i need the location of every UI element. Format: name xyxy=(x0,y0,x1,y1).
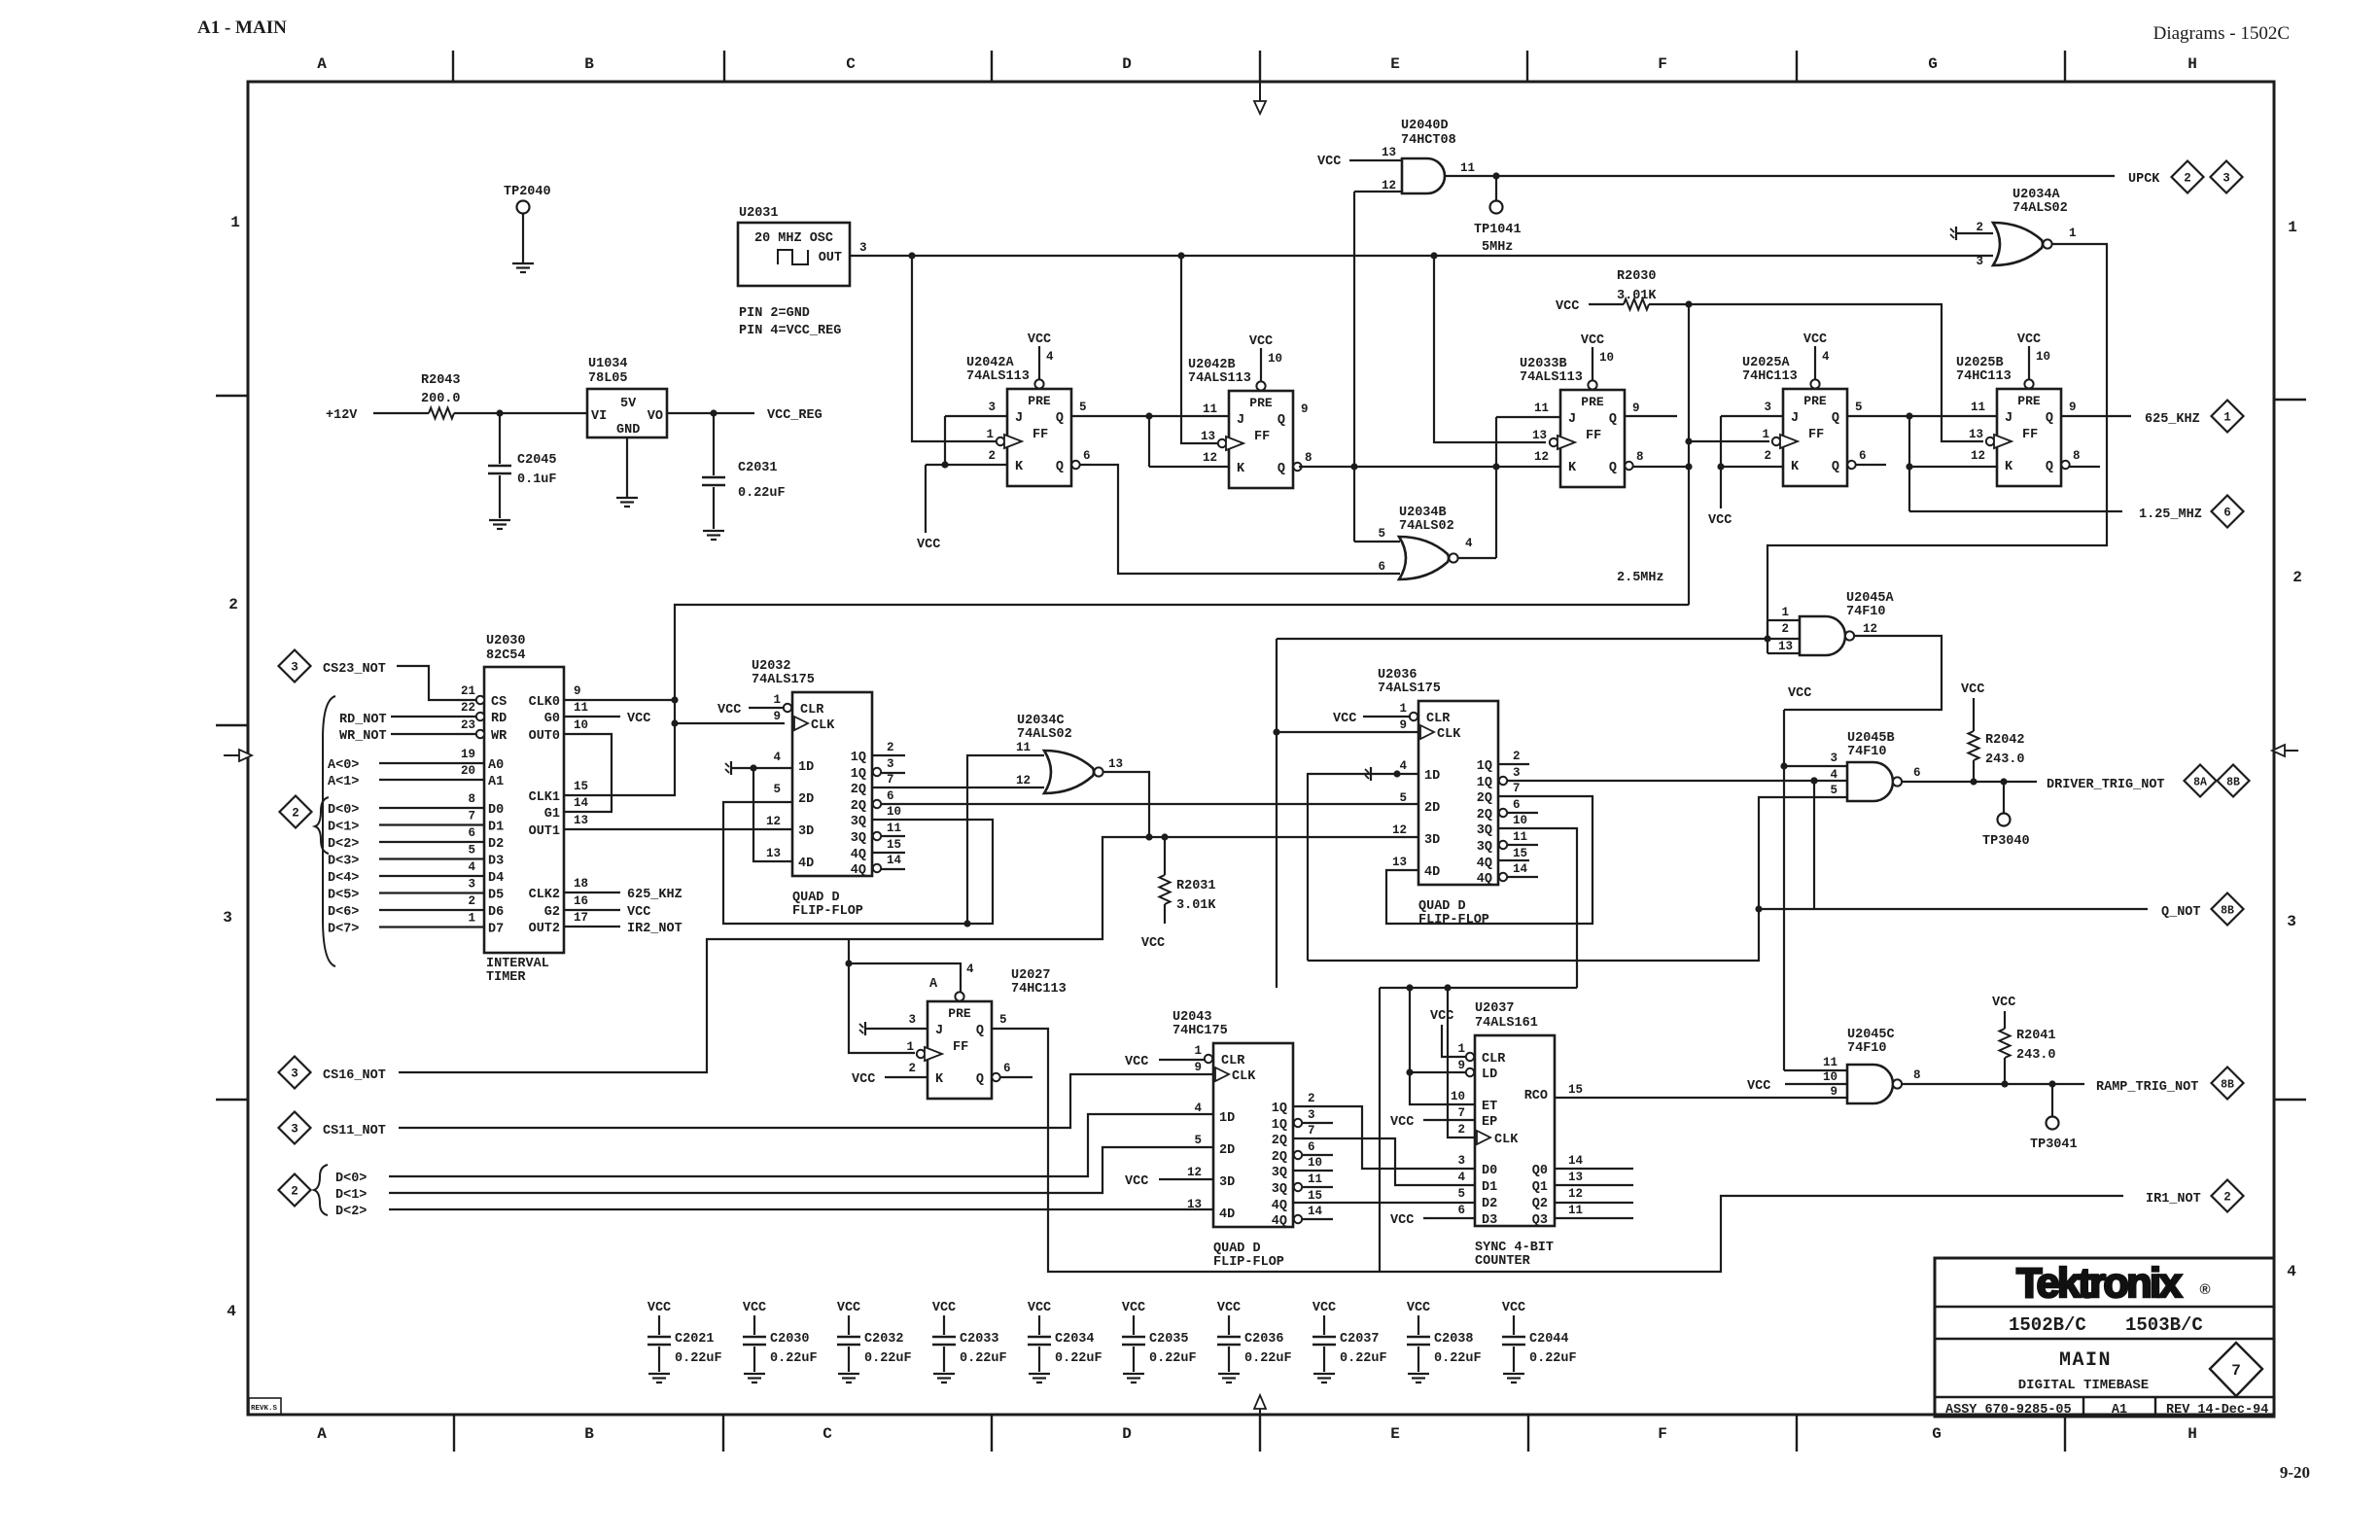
svg-text:3: 3 xyxy=(1764,401,1771,414)
svg-text:12: 12 xyxy=(1016,774,1031,787)
svg-text:74ALS175: 74ALS175 xyxy=(752,673,815,687)
connector diamond 3 (CS16_NOT) xyxy=(279,1057,311,1089)
wire D<5> to U2030 D5 xyxy=(379,892,484,893)
Tektronix logo xyxy=(2016,1260,2210,1307)
svg-text:11: 11 xyxy=(1016,741,1031,754)
wire U2037 RCO to U2045C pin 9 xyxy=(1555,1097,1847,1099)
svg-text:D5: D5 xyxy=(488,889,504,903)
connector diamond 1 (625_KHZ) xyxy=(2212,401,2244,433)
svg-text:D3: D3 xyxy=(1482,1213,1497,1228)
svg-text:8: 8 xyxy=(468,792,475,806)
svg-text:625_KHZ: 625_KHZ xyxy=(627,888,682,902)
svg-text:2: 2 xyxy=(1781,622,1789,636)
svg-text:4Q: 4Q xyxy=(851,848,866,862)
wire R2030 net to U2025B clock xyxy=(1649,300,1983,441)
capacitor C2033 (0.22uF) xyxy=(932,1301,1007,1382)
svg-text:1D: 1D xyxy=(798,760,814,775)
svg-text:1502B/C: 1502B/C xyxy=(2009,1314,2086,1336)
svg-text:0.22uF: 0.22uF xyxy=(1434,1351,1482,1366)
svg-text:J: J xyxy=(2005,411,2012,426)
svg-text:G2: G2 xyxy=(544,905,560,920)
capacitor C2045 (0.1uF) xyxy=(488,413,557,518)
svg-text:D<4>: D<4> xyxy=(328,871,359,886)
svg-text:3Q: 3Q xyxy=(851,831,866,846)
wire U2030 OUT0 to G1 loop xyxy=(564,734,612,812)
svg-text:D: D xyxy=(1122,55,1132,73)
svg-text:4D: 4D xyxy=(1424,865,1440,880)
svg-text:FF: FF xyxy=(1808,428,1824,442)
NAND gate U2045B (74F10) xyxy=(1847,731,1902,801)
svg-text:U2031: U2031 xyxy=(739,206,779,221)
wire +12V to R2043 xyxy=(373,412,429,414)
svg-text:74ALS02: 74ALS02 xyxy=(2012,201,2068,216)
svg-text:3: 3 xyxy=(1830,752,1837,765)
svg-text:5: 5 xyxy=(1194,1134,1202,1147)
svg-text:15: 15 xyxy=(887,838,901,852)
svg-text:D3: D3 xyxy=(488,855,504,869)
svg-text:5: 5 xyxy=(1378,527,1385,541)
wire U2030 G2 to VCC xyxy=(564,905,650,920)
capacitor C2030 (0.22uF) xyxy=(743,1301,818,1382)
svg-text:5: 5 xyxy=(1830,784,1837,797)
wire U2036 3Q to U2037 LD/ET net xyxy=(1498,828,1577,988)
svg-text:CS11_NOT: CS11_NOT xyxy=(323,1124,386,1138)
svg-text:D<2>: D<2> xyxy=(335,1205,367,1219)
svg-text:VCC: VCC xyxy=(1249,334,1273,349)
svg-text:U2042B: U2042B xyxy=(1188,358,1236,372)
svg-text:2: 2 xyxy=(1308,1092,1315,1105)
svg-text:VCC: VCC xyxy=(1803,332,1827,347)
wire U2030 G0 to VCC xyxy=(564,712,650,726)
svg-text:C2032: C2032 xyxy=(864,1332,904,1347)
connector diamond 3 (CS11_NOT) xyxy=(279,1112,311,1144)
test point TP3041 xyxy=(2030,1084,2078,1152)
svg-text:C2044: C2044 xyxy=(1529,1332,1569,1347)
svg-text:VCC: VCC xyxy=(932,1301,956,1315)
svg-text:0.1uF: 0.1uF xyxy=(517,472,557,487)
svg-text:1D: 1D xyxy=(1424,769,1440,784)
svg-text:11: 11 xyxy=(574,701,588,715)
svg-text:9: 9 xyxy=(1830,1085,1837,1099)
wire U2043 3Qbar stub xyxy=(1302,1186,1333,1188)
svg-text:0.22uF: 0.22uF xyxy=(1055,1351,1102,1366)
wire 20MHz oscillator output net xyxy=(849,252,1993,259)
svg-text:MAIN: MAIN xyxy=(2059,1349,2112,1372)
svg-text:VCC: VCC xyxy=(1502,1301,1525,1315)
svg-text:VCC: VCC xyxy=(1317,155,1341,169)
svg-text:10: 10 xyxy=(2036,350,2050,364)
svg-text:VCC: VCC xyxy=(1581,333,1604,348)
svg-text:TP2040: TP2040 xyxy=(504,185,551,199)
REVK.S revision box xyxy=(249,1398,281,1415)
svg-text:20: 20 xyxy=(461,764,475,778)
svg-text:3Q: 3Q xyxy=(1477,823,1492,838)
svg-text:13: 13 xyxy=(1201,430,1215,443)
VCC xyxy=(2017,332,2041,379)
wire U2032 2Qbar to U2036 2D xyxy=(881,803,1418,805)
connector diamond 3 (UPCK) xyxy=(2211,161,2243,193)
svg-text:8B: 8B xyxy=(2221,1079,2234,1092)
svg-text:3.01K: 3.01K xyxy=(1617,289,1657,303)
svg-text:Q0: Q0 xyxy=(1532,1164,1548,1178)
svg-text:PRE: PRE xyxy=(1249,396,1273,410)
svg-text:TIMER: TIMER xyxy=(486,970,526,985)
svg-text:EP: EP xyxy=(1482,1115,1497,1130)
svg-text:A: A xyxy=(317,55,327,73)
ground for C2045 xyxy=(489,520,510,529)
svg-text:U2040D: U2040D xyxy=(1401,119,1449,133)
svg-text:OUT1: OUT1 xyxy=(529,824,560,839)
wire 1.25_MHZ output xyxy=(1909,510,2122,512)
svg-text:4: 4 xyxy=(1830,768,1837,782)
wire U1034 GND to ground xyxy=(626,437,628,497)
wire U2036 1Q stub xyxy=(1498,763,1529,765)
svg-text:4Q: 4Q xyxy=(1477,857,1492,871)
wire U2033B Qbar to R2030 net xyxy=(1633,466,1689,468)
wire U2043 4Qbar stub xyxy=(1302,1218,1333,1220)
svg-text:VCC: VCC xyxy=(1125,1174,1148,1189)
capacitor C2044 (0.22uF) xyxy=(1502,1301,1577,1382)
NOR gate U2034A (74ALS02) xyxy=(1993,188,2068,265)
svg-text:2: 2 xyxy=(1457,1123,1465,1137)
svg-text:5: 5 xyxy=(1399,791,1407,805)
wire D<3> to U2030 D3 xyxy=(379,857,484,859)
svg-text:J: J xyxy=(1237,413,1244,428)
svg-text:DIGITAL TIMEBASE: DIGITAL TIMEBASE xyxy=(2018,1378,2149,1393)
wire U2036 1Qbar to U2045B pin 4 xyxy=(1507,777,1847,784)
svg-text:K: K xyxy=(2005,460,2013,474)
connector diamond 2 (IR1_NOT) xyxy=(2212,1180,2244,1212)
row ticks right xyxy=(2275,400,2306,1100)
wire D<0> to U2030 D0 xyxy=(379,807,484,809)
svg-text:11: 11 xyxy=(1534,402,1549,415)
svg-text:D4: D4 xyxy=(488,871,504,886)
wire U2037 Q3 stub xyxy=(1555,1217,1633,1219)
wire WR_NOT to U2030 WR xyxy=(391,733,476,735)
svg-text:U2043: U2043 xyxy=(1172,1010,1212,1025)
svg-text:1503B/C: 1503B/C xyxy=(2125,1314,2203,1336)
svg-text:3: 3 xyxy=(988,401,996,414)
svg-text:5: 5 xyxy=(1079,401,1087,414)
brace for U2030 input group xyxy=(323,696,335,966)
wire VCC to U2040D pin 13 xyxy=(1349,159,1402,161)
connector diamond 8B (RAMP_TRIG_NOT) xyxy=(2212,1067,2244,1100)
tied-low symbol on U2032 1D xyxy=(725,761,792,775)
svg-text:OUT: OUT xyxy=(819,251,842,265)
svg-text:OUT2: OUT2 xyxy=(529,922,560,936)
svg-text:200.0: 200.0 xyxy=(421,392,461,406)
svg-text:R2042: R2042 xyxy=(1985,733,2025,748)
wire VCC to U2037 D3 xyxy=(1390,1213,1475,1228)
svg-text:14: 14 xyxy=(574,796,589,810)
svg-text:8B: 8B xyxy=(2226,777,2240,789)
svg-text:Q_NOT: Q_NOT xyxy=(2161,905,2201,920)
svg-text:2: 2 xyxy=(2292,569,2302,586)
svg-text:3: 3 xyxy=(2287,913,2296,930)
wire VCC to U2043 CLR xyxy=(1125,1055,1206,1069)
svg-text:1Q: 1Q xyxy=(851,767,866,782)
resistor R2043 (200.0) xyxy=(421,373,461,419)
svg-text:U2025A: U2025A xyxy=(1742,356,1791,370)
svg-text:CLR: CLR xyxy=(1426,712,1451,726)
svg-text:U2027: U2027 xyxy=(1011,968,1051,983)
resistor R2031 (3.01K) pull to VCC xyxy=(1141,837,1217,951)
svg-text:Q: Q xyxy=(2046,460,2053,474)
svg-text:VCC: VCC xyxy=(627,905,650,920)
tied-low symbol on U2027 J xyxy=(859,1022,927,1035)
svg-text:0.22uF: 0.22uF xyxy=(1149,1351,1197,1366)
wire osc to U2042A clock xyxy=(912,256,1000,441)
svg-text:2D: 2D xyxy=(798,792,814,807)
svg-text:4Q: 4Q xyxy=(851,863,866,878)
svg-text:E: E xyxy=(1390,55,1400,73)
svg-text:PRE: PRE xyxy=(1028,394,1051,408)
svg-text:A0: A0 xyxy=(488,758,504,773)
svg-text:0.22uF: 0.22uF xyxy=(770,1351,818,1366)
svg-text:4: 4 xyxy=(773,751,781,764)
svg-text:0.22uF: 0.22uF xyxy=(960,1351,1007,1366)
svg-text:14: 14 xyxy=(1308,1205,1323,1218)
svg-text:4: 4 xyxy=(1046,350,1054,364)
capacitor C2038 (0.22uF) xyxy=(1407,1301,1482,1382)
svg-text:1: 1 xyxy=(773,693,781,707)
wire VCC to U2043 3D xyxy=(1125,1174,1213,1189)
NOR gate U2034C (74ALS02) xyxy=(1017,714,1103,793)
svg-text:CLK: CLK xyxy=(1232,1069,1256,1084)
wire U2036 2Qbar stub xyxy=(1507,812,1538,814)
svg-text:C2037: C2037 xyxy=(1340,1332,1380,1347)
svg-text:3: 3 xyxy=(859,241,867,255)
wire D<1> to U2030 D1 xyxy=(379,823,484,825)
svg-text:4: 4 xyxy=(966,962,974,976)
svg-text:Q: Q xyxy=(2046,411,2053,426)
wire VCC to U2037 CLR xyxy=(1430,1009,1465,1057)
svg-text:12: 12 xyxy=(1187,1166,1202,1179)
wire U2032 4Q stub xyxy=(872,852,905,854)
svg-text:COUNTER: COUNTER xyxy=(1475,1254,1531,1269)
svg-text:19: 19 xyxy=(461,748,475,761)
svg-text:11: 11 xyxy=(887,822,901,835)
column ticks bottom xyxy=(454,1415,2065,1452)
row numbers right xyxy=(2287,219,2302,1280)
alignment arrow left border xyxy=(224,750,252,761)
svg-text:B: B xyxy=(584,55,594,73)
svg-text:6: 6 xyxy=(1513,798,1521,812)
svg-text:PRE: PRE xyxy=(1581,395,1604,409)
capacitor C2032 (0.22uF) xyxy=(837,1301,912,1382)
svg-text:11: 11 xyxy=(1203,402,1217,416)
svg-text:7: 7 xyxy=(887,773,894,787)
svg-text:12: 12 xyxy=(1534,450,1549,464)
svg-text:6: 6 xyxy=(1308,1140,1315,1154)
svg-text:VCC: VCC xyxy=(1390,1115,1414,1130)
svg-text:SYNC 4-BIT: SYNC 4-BIT xyxy=(1475,1241,1554,1255)
svg-text:1: 1 xyxy=(468,912,475,926)
NOR gate U2034B (74ALS02) xyxy=(1399,506,1458,579)
wire U2030 CLK0 to clock loop xyxy=(564,699,675,701)
wire U2045B pin 5 net xyxy=(1308,797,1847,961)
svg-text:4: 4 xyxy=(227,1303,236,1320)
svg-text:14: 14 xyxy=(1568,1154,1584,1168)
svg-text:FF: FF xyxy=(1254,430,1270,444)
wire osc to U2042B clock xyxy=(1181,256,1218,443)
svg-text:13: 13 xyxy=(1532,429,1547,442)
svg-text:74ALS02: 74ALS02 xyxy=(1017,727,1072,742)
svg-text:14: 14 xyxy=(1513,862,1528,876)
svg-text:2Q: 2Q xyxy=(1477,791,1492,806)
node A to U2027 PRE xyxy=(845,960,961,992)
quad D flip-flop U2032 (74ALS175) xyxy=(752,659,902,919)
svg-text:4: 4 xyxy=(468,860,475,874)
oscillator U2031 (20 MHZ OSC) xyxy=(738,206,867,286)
wire U2042A Qbar to NOR U2034B pin 6 xyxy=(1079,465,1400,574)
wire D<4> to U2030 D4 xyxy=(379,875,484,877)
svg-text:5: 5 xyxy=(468,844,475,857)
svg-text:PIN 4=VCC_REG: PIN 4=VCC_REG xyxy=(739,324,841,338)
svg-text:74ALS113: 74ALS113 xyxy=(1520,370,1583,385)
wire U2032 2D loop from 3Q xyxy=(723,802,993,924)
svg-text:VCC: VCC xyxy=(2017,332,2041,347)
flip-flop U2042A (74ALS113) xyxy=(966,350,1091,486)
svg-text:10: 10 xyxy=(1599,351,1614,365)
svg-text:13: 13 xyxy=(574,814,588,827)
wire U2027 Q to IR1_NOT xyxy=(992,1029,2123,1272)
svg-text:5: 5 xyxy=(1457,1187,1465,1201)
svg-text:E: E xyxy=(1390,1425,1400,1443)
wire U2025B Qbar stub xyxy=(2069,466,2100,468)
svg-text:Q: Q xyxy=(976,1024,984,1038)
svg-text:3: 3 xyxy=(2222,172,2230,186)
wire VCC node down to U2045B pin 3 and U2045C pin 11 xyxy=(1780,710,1847,1070)
wire U2030 OUT2 label IR2_NOT xyxy=(564,922,682,936)
svg-text:12: 12 xyxy=(1392,823,1407,837)
svg-text:D<1>: D<1> xyxy=(328,821,359,835)
svg-text:12: 12 xyxy=(766,815,781,828)
wire VCC to U2045C pin 10 xyxy=(1747,1079,1847,1094)
svg-text:0.22uF: 0.22uF xyxy=(1244,1351,1292,1366)
svg-text:Q: Q xyxy=(1832,411,1839,426)
svg-text:R2041: R2041 xyxy=(2016,1029,2056,1043)
svg-text:4: 4 xyxy=(1194,1102,1202,1115)
svg-text:FLIP-FLOP: FLIP-FLOP xyxy=(1213,1255,1284,1270)
wire U2043 2Q to U2037 D1 xyxy=(1293,1138,1475,1185)
svg-text:3D: 3D xyxy=(1219,1175,1235,1190)
svg-text:D<0>: D<0> xyxy=(335,1172,367,1186)
svg-text:PRE: PRE xyxy=(1803,394,1827,408)
wire U2032 1D tie to 4D xyxy=(753,768,792,861)
svg-text:8B: 8B xyxy=(2221,905,2234,918)
svg-text:PRE: PRE xyxy=(948,1006,971,1021)
wire U2027 Qbar stub xyxy=(1000,1076,1032,1078)
svg-text:IR1_NOT: IR1_NOT xyxy=(2146,1192,2201,1207)
svg-text:11: 11 xyxy=(1460,161,1475,175)
svg-text:CS23_NOT: CS23_NOT xyxy=(323,662,386,677)
wire U2032 2Q to U2034C pin 12 xyxy=(872,787,1044,788)
svg-text:K: K xyxy=(1791,460,1800,474)
svg-text:A1 - MAIN: A1 - MAIN xyxy=(197,17,287,38)
svg-text:PIN 2=GND: PIN 2=GND xyxy=(739,306,810,321)
VCC xyxy=(1249,334,1273,381)
svg-text:4D: 4D xyxy=(1219,1207,1235,1222)
svg-text:2: 2 xyxy=(908,1062,916,1075)
note PIN 2=GND / PIN 4=VCC_REG xyxy=(739,306,841,338)
svg-text:0.22uF: 0.22uF xyxy=(1529,1351,1577,1366)
svg-text:6: 6 xyxy=(468,826,475,840)
svg-text:CS16_NOT: CS16_NOT xyxy=(323,1068,386,1083)
resistor R2030 (3.01K) with VCC xyxy=(1556,269,1657,314)
svg-text:11: 11 xyxy=(1568,1204,1583,1217)
svg-text:74F10: 74F10 xyxy=(1846,605,1886,619)
svg-text:12: 12 xyxy=(1568,1187,1583,1201)
wire U2032 3Qbar stub xyxy=(881,835,905,837)
svg-text:3Q: 3Q xyxy=(1477,840,1492,855)
svg-text:11: 11 xyxy=(1308,1172,1322,1186)
svg-text:U2033B: U2033B xyxy=(1520,357,1567,371)
brace for lower data bus xyxy=(314,1165,328,1215)
wire U2043 2Qbar stub xyxy=(1302,1154,1333,1156)
svg-text:1: 1 xyxy=(1457,1042,1465,1056)
svg-text:3: 3 xyxy=(1513,766,1521,780)
svg-text:VCC: VCC xyxy=(837,1301,860,1315)
svg-text:15: 15 xyxy=(574,780,588,793)
svg-text:6: 6 xyxy=(1378,560,1385,574)
connector diamond 8A (DRIVER_TRIG_NOT) xyxy=(2185,765,2217,797)
svg-text:4Q: 4Q xyxy=(1272,1214,1287,1229)
svg-text:FF: FF xyxy=(1032,428,1048,442)
svg-text:13: 13 xyxy=(1392,856,1407,869)
svg-text:11: 11 xyxy=(1823,1056,1837,1069)
svg-text:1: 1 xyxy=(986,428,994,441)
svg-text:CLK: CLK xyxy=(1494,1133,1519,1147)
svg-text:10: 10 xyxy=(1308,1156,1322,1170)
svg-text:11: 11 xyxy=(1971,401,1985,414)
wire U2036 2Q loop to 4D xyxy=(1386,796,1592,924)
svg-text:13: 13 xyxy=(766,847,781,860)
svg-text:U2025B: U2025B xyxy=(1956,356,2004,370)
wire D<1> to U2043 2D xyxy=(389,1147,1213,1193)
svg-text:H: H xyxy=(2187,1425,2197,1443)
svg-text:9: 9 xyxy=(1301,402,1309,416)
svg-text:10: 10 xyxy=(1513,814,1527,827)
tied-low symbol on U2036 1D xyxy=(1365,767,1371,781)
svg-text:VCC: VCC xyxy=(1312,1301,1336,1315)
test point TP1041 (5MHz) xyxy=(1474,176,1522,255)
capacitor C2031 (0.22uF) xyxy=(702,413,786,529)
svg-text:VI: VI xyxy=(591,409,607,424)
svg-text:4D: 4D xyxy=(798,857,814,871)
svg-text:C: C xyxy=(846,55,856,73)
border frame xyxy=(248,82,2274,1415)
svg-text:2: 2 xyxy=(1513,750,1521,763)
svg-text:LD: LD xyxy=(1482,1067,1497,1082)
svg-text:F: F xyxy=(1658,55,1667,73)
svg-text:3: 3 xyxy=(291,661,298,675)
flip-flop U2033B (74ALS113) xyxy=(1520,351,1644,487)
svg-text:4: 4 xyxy=(1399,759,1407,773)
svg-text:22: 22 xyxy=(461,701,475,715)
svg-text:GND: GND xyxy=(616,423,640,437)
svg-text:6: 6 xyxy=(887,789,894,803)
svg-text:VCC: VCC xyxy=(1992,996,2015,1010)
svg-text:7: 7 xyxy=(1308,1124,1315,1137)
svg-text:23: 23 xyxy=(461,718,475,732)
wire D<0> to U2043 1D xyxy=(389,1114,1213,1176)
svg-text:5: 5 xyxy=(773,783,781,796)
svg-text:K: K xyxy=(1237,462,1245,476)
svg-text:11: 11 xyxy=(1513,830,1527,844)
svg-text:3D: 3D xyxy=(798,824,814,839)
column letters top xyxy=(317,55,2197,73)
